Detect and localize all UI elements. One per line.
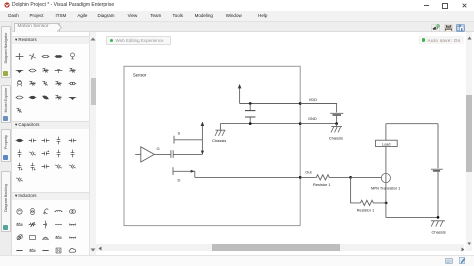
wire top rail (386, 123, 438, 125)
node VDD pin (299, 97, 317, 105)
svg-text:Chassis: Chassis (432, 229, 446, 234)
battery B1 (330, 113, 343, 123)
load LD1 (376, 140, 398, 146)
sensing element E1 (triangle) (135, 146, 159, 162)
svg-text:VDD: VDD (309, 97, 317, 102)
resistor R1 (300, 175, 350, 187)
arrow up (gate bias) (201, 122, 205, 155)
svg-text:Resistor 1: Resistor 1 (313, 182, 331, 187)
capacitor C2 (decoupling) (245, 104, 255, 124)
resistor R2 (357, 200, 386, 212)
svg-text:G: G (157, 146, 160, 151)
svg-text:S: S (178, 131, 181, 136)
node VDD junction (249, 102, 252, 105)
node emitter junction (385, 202, 388, 205)
node GND pin (299, 116, 317, 125)
wire gate node (173, 153, 202, 155)
transistor Q2 NPN (371, 173, 401, 190)
node bottom-right junction (437, 216, 440, 219)
node battery-gnd junction (335, 122, 338, 125)
wire GND to battery (300, 123, 336, 125)
chassis ground (output) (431, 221, 446, 235)
svg-text:Resistor 1: Resistor 1 (357, 208, 375, 213)
wire GND rail (220, 123, 300, 125)
VDD arrow (238, 84, 242, 104)
svg-text:Chassis: Chassis (212, 138, 226, 143)
wire emitter down (385, 183, 387, 218)
wire drain to Out (195, 176, 300, 178)
wire bottom rail (386, 216, 438, 218)
wire base (351, 176, 382, 178)
svg-text:D: D (178, 178, 181, 183)
wire VDD to battery (300, 104, 336, 113)
transistor Q1 drain terminal D (173, 167, 195, 182)
battery B2 (431, 169, 443, 171)
node base junction (349, 176, 352, 179)
node GND junction (249, 122, 252, 125)
wire VDD rail (240, 103, 301, 105)
svg-text:Out: Out (305, 169, 312, 174)
capacitor C1 (gate) (171, 150, 173, 158)
node Out pin (299, 169, 313, 178)
wire to resistor R2 (351, 177, 361, 203)
svg-text:Load: Load (382, 142, 390, 146)
chassis ground (sensor) (212, 124, 226, 143)
wire collector to load (385, 124, 387, 174)
svg-text:GND: GND (308, 116, 317, 121)
wire right rail lower (437, 172, 439, 218)
wire right rail upper (437, 124, 439, 169)
wire element to gate capacitor (154, 153, 171, 155)
transistor Q1 source terminal S (174, 131, 202, 144)
svg-text:Sensor: Sensor (133, 72, 147, 77)
svg-text:Chassis: Chassis (329, 136, 343, 141)
sensor enclosure box (124, 66, 300, 225)
chassis ground (supply) (329, 124, 343, 141)
